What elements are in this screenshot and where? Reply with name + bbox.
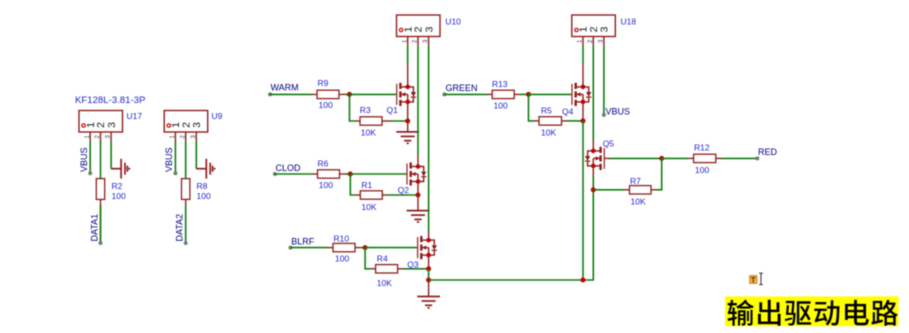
wire R5 to Q4 source (567, 120, 583, 122)
pin lead R9 left (312, 93, 317, 95)
junction Q4 rail / bottom rail (581, 278, 586, 283)
svg-text:CLOD: CLOD (276, 163, 302, 173)
svg-text:100: 100 (335, 254, 349, 264)
pin lead R1 right (382, 194, 387, 196)
svg-text:Q5: Q5 (603, 139, 615, 149)
junction bottom rail at Q3 (426, 278, 431, 283)
wire node C to Q3 gate (365, 247, 416, 249)
wire R3 to Q1 source (392, 120, 408, 122)
pin lead R10 left (328, 247, 333, 249)
wire node A down to R3 (350, 94, 356, 121)
wire node D to Q4 gate (529, 93, 571, 95)
resistor R6 (318, 170, 340, 178)
svg-text:100: 100 (197, 191, 211, 201)
svg-text:WARM: WARM (271, 83, 299, 93)
resistor R8 (182, 179, 190, 200)
wire Q3 source node down (428, 269, 430, 280)
pin lead R3 left (355, 120, 360, 122)
wire U10 pin3 down (428, 46, 430, 232)
pin lead R6 right (340, 173, 346, 175)
junction Q4 source / R5 (581, 118, 586, 123)
svg-text:10K: 10K (631, 196, 646, 206)
svg-text:Q2: Q2 (398, 185, 410, 195)
connector U10 (397, 15, 441, 46)
wire node A to Q1 gate (350, 93, 396, 95)
wire R1 to Q2 source (387, 194, 418, 196)
wire Q4 drain pin (582, 64, 584, 87)
wire Q4 source down to bottom rail (582, 102, 584, 121)
pin lead R4 right (398, 268, 403, 270)
junction Q2 source / R1 (416, 193, 421, 198)
svg-text:R12: R12 (694, 143, 710, 153)
pin lead R9 right (339, 93, 345, 95)
wire WARM to R9 (270, 93, 312, 95)
junction Q3 source / R4 (426, 266, 431, 271)
svg-text:R6: R6 (318, 159, 329, 169)
wire R10 to node C (360, 247, 365, 249)
pin lead R7 left (624, 189, 630, 191)
svg-text:100: 100 (695, 165, 709, 175)
wire R13 to node D (520, 93, 529, 95)
pin lead R4 left (371, 268, 376, 270)
pin lead R1 left (355, 194, 360, 196)
svg-text:Q3: Q3 (407, 260, 419, 270)
svg-text:Q1: Q1 (387, 105, 399, 115)
wire U18 pin2 down to Q5 drain (592, 46, 594, 140)
connector U18 (572, 15, 616, 46)
pin lead R10 right (355, 247, 360, 249)
pin lead Q4 gate (571, 93, 572, 95)
wire R2 to DATA1 (100, 199, 102, 241)
wire U17 pin1 VBUS (89, 141, 91, 172)
junction Q1 source / R3 (405, 119, 410, 124)
wire node B to Q2 gate (350, 173, 405, 175)
pin lead R7 right (651, 189, 657, 191)
resistor R12 (694, 154, 716, 162)
svg-text:VBUS: VBUS (79, 147, 89, 172)
wire U18 pin3 to VBUS (603, 46, 605, 113)
transistor Q2 (407, 162, 426, 185)
resistor R4 (376, 265, 398, 273)
node VBUS terminal U9 (173, 171, 177, 175)
junction Q5 source / R7 / rail (591, 187, 596, 192)
svg-text:DATA1: DATA1 (89, 214, 99, 242)
wire GREEN to R13 (444, 93, 487, 95)
pin lead R13 left (487, 93, 492, 95)
svg-text:3: 3 (599, 26, 611, 32)
node DATA1 terminal (99, 241, 103, 245)
node VBUS terminal U17 (88, 171, 92, 175)
ground (U9 pin3) (196, 159, 214, 179)
svg-text:10K: 10K (541, 127, 556, 137)
svg-text:GREEN: GREEN (446, 83, 478, 93)
svg-text:R4: R4 (377, 254, 388, 264)
cursor I-beam (759, 273, 763, 284)
wire R8 to DATA2 (185, 199, 187, 241)
svg-text:R7: R7 (630, 176, 641, 186)
wire R8 to DATA2 green (185, 205, 187, 241)
pin lead R5 right (562, 120, 568, 122)
wire Q5 source junction to R7 (593, 189, 624, 191)
wire U9 pin3 to ground (195, 141, 197, 169)
wire Q2 source to ground (417, 182, 419, 211)
svg-text:R9: R9 (318, 78, 329, 88)
wire U18 pin1 to Q4 drain (582, 46, 584, 64)
pin lead Q3 gate (416, 247, 417, 249)
wire CLOD to R6 (275, 173, 313, 175)
wire R4 to Q3 source (403, 268, 429, 270)
wire Q3 source down (428, 255, 430, 269)
resistor R9 (317, 90, 339, 98)
wire U17 pin3 to ground (110, 141, 112, 169)
svg-text:U10: U10 (445, 17, 461, 27)
pin lead R12 left (688, 157, 693, 159)
wire R6 to node B (345, 173, 350, 175)
svg-text:DATA2: DATA2 (175, 214, 185, 242)
transistor Q4 (572, 83, 591, 106)
resistor R2 (96, 179, 104, 200)
node C junction (R10/R4/Q3 gate) (363, 245, 368, 250)
ground (Q2 source) (407, 211, 430, 222)
svg-text:RED: RED (758, 147, 778, 157)
svg-text:KF128L-3.81-3P: KF128L-3.81-3P (75, 95, 145, 106)
node RED terminal (755, 156, 759, 160)
wire R9 to node A (345, 93, 350, 95)
svg-text:R13: R13 (492, 79, 508, 89)
wire Q1 source to ground (407, 102, 409, 132)
node D junction (R13/R5/Q4 gate) (526, 92, 531, 97)
svg-text:10K: 10K (361, 202, 376, 212)
pin lead Q5 gate (604, 157, 609, 159)
node B junction (R6/R1/Q2 gate) (348, 172, 353, 177)
wire Q5 gate to node E (609, 157, 662, 159)
wire Q5 source down (592, 166, 594, 176)
transistor Q5 (585, 147, 604, 170)
wire BLRF to R10 (291, 247, 329, 249)
wire node C down to R4 (365, 248, 371, 269)
wire R2 to DATA1 green (100, 205, 102, 241)
resistor R3 (360, 117, 382, 125)
ground (U17 pin3) (111, 159, 129, 179)
transistor Q3 (418, 236, 437, 259)
wire R12 to RED (721, 157, 757, 159)
resistor R1 (360, 191, 382, 199)
svg-text:R3: R3 (360, 105, 371, 115)
wire U9 pin1 VBUS (174, 141, 176, 172)
wire R7 up to node E (657, 158, 662, 189)
resistor R13 (492, 90, 514, 98)
wire node E to R12 (662, 157, 689, 159)
svg-text:R2: R2 (112, 181, 123, 191)
wire Q5 drain pin (592, 140, 594, 151)
wire node B down to R1 (350, 174, 355, 195)
pin lead R5 left (534, 120, 539, 122)
svg-text:VBUS: VBUS (606, 106, 631, 116)
svg-text:100: 100 (494, 101, 508, 111)
svg-text:R5: R5 (541, 105, 552, 115)
wire Q4 source rail (582, 121, 584, 280)
svg-text:U17: U17 (127, 111, 143, 121)
pin lead R13 right (514, 93, 519, 95)
node A junction (R9/R3/Q1 gate) (347, 92, 352, 97)
wire Q2 drain pin (417, 155, 419, 167)
svg-text:Q4: Q4 (562, 106, 574, 116)
svg-text:10K: 10K (361, 127, 376, 137)
wire U17 pin2 to R2 (100, 141, 102, 179)
connector U9 (164, 111, 208, 142)
svg-text:10K: 10K (377, 278, 392, 288)
icon text-tool (750, 276, 758, 284)
resistor R7 (630, 186, 652, 194)
transistor Q1 (397, 83, 416, 106)
svg-text:3: 3 (191, 122, 203, 128)
svg-text:VBUS: VBUS (164, 147, 174, 172)
svg-text:R8: R8 (197, 181, 208, 191)
resistor R5 (539, 117, 562, 125)
wire Q5 source to junction (592, 176, 594, 190)
wire Q3 node to ground (428, 280, 430, 297)
wire Q3 drain pin (428, 232, 430, 240)
pin lead Q2 gate (406, 173, 407, 175)
ground (Q3 source) (417, 297, 440, 308)
title highlight box (725, 296, 899, 326)
node DATA2 terminal (184, 241, 188, 245)
svg-text:U18: U18 (621, 16, 637, 26)
node CLOD terminal (273, 172, 277, 176)
pin lead R6 left (313, 173, 318, 175)
wire U10 pin2 down (417, 46, 419, 155)
node BLRF terminal (289, 246, 293, 250)
pin lead R12 right (716, 157, 721, 159)
svg-text:100: 100 (319, 100, 333, 110)
pin lead R3 right (382, 120, 392, 122)
pin lead Q1 gate (395, 93, 396, 95)
svg-text:U9: U9 (212, 111, 223, 121)
svg-text:3: 3 (106, 122, 118, 128)
node VBUS terminal (right) (602, 113, 606, 117)
resistor R10 (333, 243, 355, 251)
wire bottom rail (429, 190, 594, 280)
node WARM terminal (268, 92, 272, 96)
wire U9 pin2 to R8 (185, 141, 187, 179)
node GREEN terminal (442, 92, 446, 96)
svg-text:100: 100 (319, 180, 333, 190)
svg-text:R1: R1 (361, 180, 372, 190)
svg-text:R10: R10 (334, 233, 350, 243)
wire Q1 drain pin (407, 64, 409, 87)
connector U17 (79, 111, 123, 142)
node E junction (Q5 gate/R12/R7) (659, 156, 664, 161)
wire U10 pin1 to Q1 drain (407, 46, 409, 64)
ground (Q1 source) (396, 132, 419, 143)
svg-text:3: 3 (423, 26, 435, 32)
svg-text:BLRF: BLRF (291, 237, 315, 247)
title text 输出驱动电路 (728, 300, 898, 326)
svg-text:100: 100 (112, 191, 126, 201)
wire node D down to R5 (529, 94, 535, 121)
